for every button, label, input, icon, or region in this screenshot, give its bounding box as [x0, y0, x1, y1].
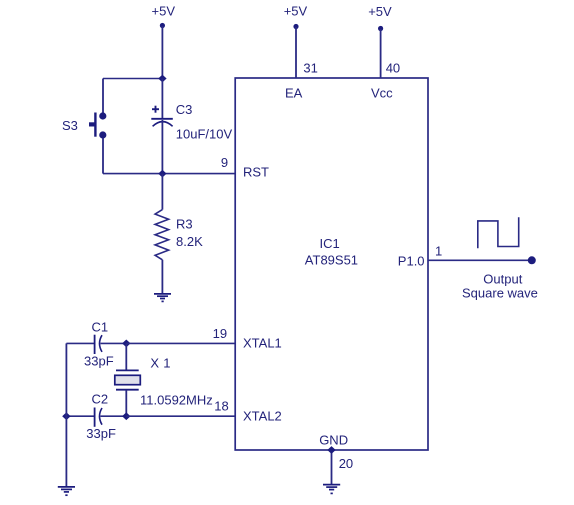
svg-text:18: 18 — [214, 398, 228, 413]
svg-text:33pF: 33pF — [86, 426, 116, 441]
svg-text:AT89S51: AT89S51 — [305, 253, 358, 268]
svg-text:20: 20 — [339, 456, 353, 471]
node junction C2/XTAL2 — [122, 412, 130, 420]
svg-text:C3: C3 — [176, 102, 193, 117]
svg-text:Output: Output — [483, 271, 522, 286]
ground (below GND pin) — [323, 485, 340, 494]
wire (RST horizontal) — [103, 173, 235, 175]
wire (R3 top) — [161, 174, 163, 210]
node junction A — [158, 75, 166, 83]
wire (XTAL2 horizontal) — [126, 415, 235, 417]
svg-text:+5V: +5V — [284, 3, 308, 18]
power +5V (left, reset net) — [152, 3, 176, 78]
power +5V (EA pin 31) — [284, 3, 318, 100]
capacitor C1 — [66, 320, 126, 369]
svg-text:X: X — [150, 355, 159, 370]
power +5V (Vcc pin 40) — [368, 4, 400, 101]
svg-text:40: 40 — [386, 60, 400, 75]
pin GND 20 — [319, 432, 353, 484]
svg-text:IC1: IC1 — [320, 236, 340, 251]
svg-text:+5V: +5V — [368, 4, 392, 19]
wire (S3 lower vertical) — [102, 138, 104, 174]
node junction C1/XTAL1 — [122, 340, 130, 348]
crystal X1 — [115, 343, 213, 416]
svg-text:8.2K: 8.2K — [176, 234, 203, 249]
svg-text:Square wave: Square wave — [462, 285, 538, 300]
svg-text:C2: C2 — [92, 392, 109, 407]
svg-text:9: 9 — [221, 155, 228, 170]
wire (XTAL1 horizontal) — [126, 342, 235, 344]
svg-text:GND: GND — [319, 432, 348, 447]
svg-text:19: 19 — [213, 326, 227, 341]
svg-text:P1.0: P1.0 — [398, 254, 425, 269]
wire (R3 bottom) — [161, 260, 163, 294]
label Output Square wave — [462, 271, 538, 300]
wire (C3 lower vertical) — [161, 120, 163, 174]
svg-text:1: 1 — [163, 355, 170, 370]
svg-text:Vcc: Vcc — [371, 86, 393, 101]
svg-text:33pF: 33pF — [84, 353, 114, 368]
svg-text:11.0592MHz: 11.0592MHz — [140, 392, 213, 407]
svg-text:XTAL2: XTAL2 — [243, 408, 282, 423]
svg-text:+5V: +5V — [152, 3, 176, 18]
ground (below R3) — [154, 294, 171, 302]
wire (C3 upper vertical) — [161, 79, 163, 120]
svg-text:RST: RST — [243, 164, 269, 179]
svg-text:XTAL1: XTAL1 — [243, 335, 282, 350]
capacitor C3 — [151, 102, 232, 142]
square wave icon — [478, 217, 519, 248]
svg-text:31: 31 — [303, 60, 317, 75]
svg-text:10uF/10V: 10uF/10V — [176, 126, 233, 141]
ground (left rail) — [58, 487, 75, 495]
svg-text:C1: C1 — [92, 320, 109, 335]
node junction B — [158, 170, 166, 178]
op IC1 AT89S51 box — [235, 78, 428, 450]
node junction GND — [327, 446, 335, 454]
svg-text:1: 1 — [435, 244, 442, 259]
switch S3 — [62, 112, 106, 138]
svg-text:R3: R3 — [176, 217, 193, 232]
svg-text:S3: S3 — [62, 118, 78, 133]
capacitor C2 — [66, 392, 126, 442]
wire (S3 upper vertical) — [102, 79, 104, 114]
resistor R3 — [155, 210, 203, 260]
node junction C2 left — [62, 412, 70, 420]
pin P1.0 output — [398, 244, 536, 269]
wire (left rail vertical) — [65, 343, 67, 486]
wire (top horizontal to S3) — [103, 78, 162, 80]
svg-text:EA: EA — [285, 86, 303, 101]
